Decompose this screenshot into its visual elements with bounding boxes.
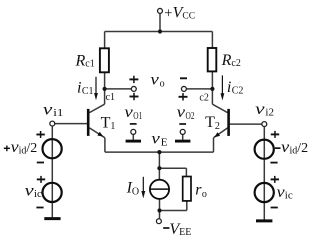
svg-text:c1: c1 [106,92,115,103]
svg-text:c2: c2 [199,92,208,103]
